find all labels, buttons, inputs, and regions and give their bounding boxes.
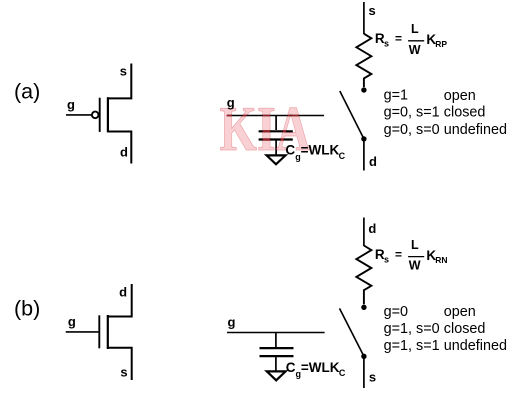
svg-text:open: open (444, 88, 476, 104)
svg-text:undefined: undefined (444, 122, 507, 138)
svg-text:g: g (228, 314, 236, 329)
svg-text:L: L (411, 22, 419, 36)
truth table (model b) (384, 304, 507, 354)
wire gate net horizontal (model b) (227, 332, 325, 334)
svg-text:RN: RN (435, 255, 447, 265)
gate bar Q1 (99, 98, 101, 132)
svg-text:d: d (368, 221, 376, 236)
wire drain stub (model a) (363, 139, 365, 171)
wire capacitor to ground (model b) (275, 356, 277, 371)
svg-text:(b): (b) (14, 296, 40, 320)
capacitor Cg (model a) (259, 131, 293, 139)
svg-text:s: s (369, 3, 376, 18)
svg-text:=: = (395, 32, 402, 46)
svg-text:g: g (67, 97, 75, 112)
transistor Q1 (PMOS symbol) (66, 64, 131, 164)
svg-text:RP: RP (435, 39, 447, 49)
svg-text:closed: closed (444, 105, 486, 121)
svg-text:C: C (285, 143, 295, 158)
svg-text:C: C (339, 151, 346, 161)
wire gate net horizontal (model a) (227, 115, 324, 117)
wire capacitor tap (model b) (275, 333, 277, 348)
svg-text:s: s (369, 370, 376, 385)
wire gate lead Q1 (66, 114, 92, 116)
wire gate lead Q2 (66, 331, 99, 333)
svg-text:s: s (120, 365, 127, 380)
junction dot (resistor bottom, model a) (361, 87, 366, 92)
wire source stub (model a) (363, 2, 365, 34)
svg-text:s: s (384, 254, 389, 264)
svg-text:g=0, s=0: g=0, s=0 (384, 122, 440, 138)
junction dot (resistor bottom, model b) (361, 305, 366, 310)
svg-text:g=0, s=1: g=0, s=1 (384, 105, 440, 121)
svg-text:g=1: g=1 (384, 88, 408, 104)
svg-text:W: W (409, 259, 421, 273)
svg-text:g=0: g=0 (384, 304, 408, 320)
ground (model b) (267, 371, 286, 380)
svg-text:g: g (68, 314, 76, 329)
svg-text:d: d (369, 154, 377, 169)
svg-text:g: g (227, 95, 235, 110)
channel bar Q2 (107, 315, 109, 349)
svg-text:s: s (384, 39, 389, 49)
formula Rs = L/W KRP (375, 22, 448, 57)
capacitor Cg (model b) (260, 348, 294, 356)
svg-text:d: d (120, 145, 128, 160)
svg-text:open: open (444, 304, 476, 320)
svg-text:C: C (286, 360, 296, 375)
svg-text:=: = (395, 247, 402, 261)
svg-text:(a): (a) (14, 79, 40, 103)
truth table (model a) (384, 88, 507, 138)
wire source horizontal Q1 (108, 64, 131, 99)
wire capacitor tap (model a) (275, 116, 277, 131)
formula Rs = L/W KRN (375, 238, 448, 273)
watermark KIA (dark red overlap on wires) (227, 116, 324, 155)
junction dot (switch bottom, model a) (361, 136, 366, 141)
svg-text:g=1, s=1: g=1, s=1 (384, 338, 440, 354)
value label Cg=WLKC (model b) (286, 360, 346, 379)
wire drain stub (model b) (363, 218, 365, 247)
resistor Rs (model b) (356, 246, 371, 305)
wire drain horizontal Q1 (108, 132, 131, 164)
svg-text:=WLK: =WLK (301, 143, 340, 158)
svg-text:closed: closed (444, 321, 486, 337)
wire source stub (model b) (363, 356, 365, 388)
transistor Q2 (NMOS symbol) (66, 284, 132, 380)
svg-text:L: L (411, 238, 419, 252)
ground (model a) (267, 155, 286, 164)
junction dot (switch bottom, model b) (361, 354, 366, 359)
svg-text:undefined: undefined (444, 338, 507, 354)
gate bar Q2 (98, 315, 100, 348)
svg-text:g=1, s=0: g=1, s=0 (384, 321, 440, 337)
value label Cg=WLKC (model a) (285, 143, 345, 162)
channel bar Q1 (107, 97, 109, 132)
switch lever (model b) (340, 308, 364, 356)
bubble (PMOS gate inversion circle) (92, 112, 99, 119)
svg-text:=WLK: =WLK (301, 360, 340, 375)
svg-text:W: W (409, 43, 421, 57)
svg-text:d: d (119, 285, 127, 300)
wire drain horizontal Q2 (108, 284, 132, 317)
resistor Rs (model a) (356, 34, 371, 87)
wire capacitor to ground (model a) (275, 139, 277, 154)
svg-text:s: s (120, 64, 127, 79)
wire source horizontal Q2 (108, 348, 132, 380)
svg-text:C: C (339, 368, 346, 378)
switch lever (model a) (340, 91, 364, 139)
